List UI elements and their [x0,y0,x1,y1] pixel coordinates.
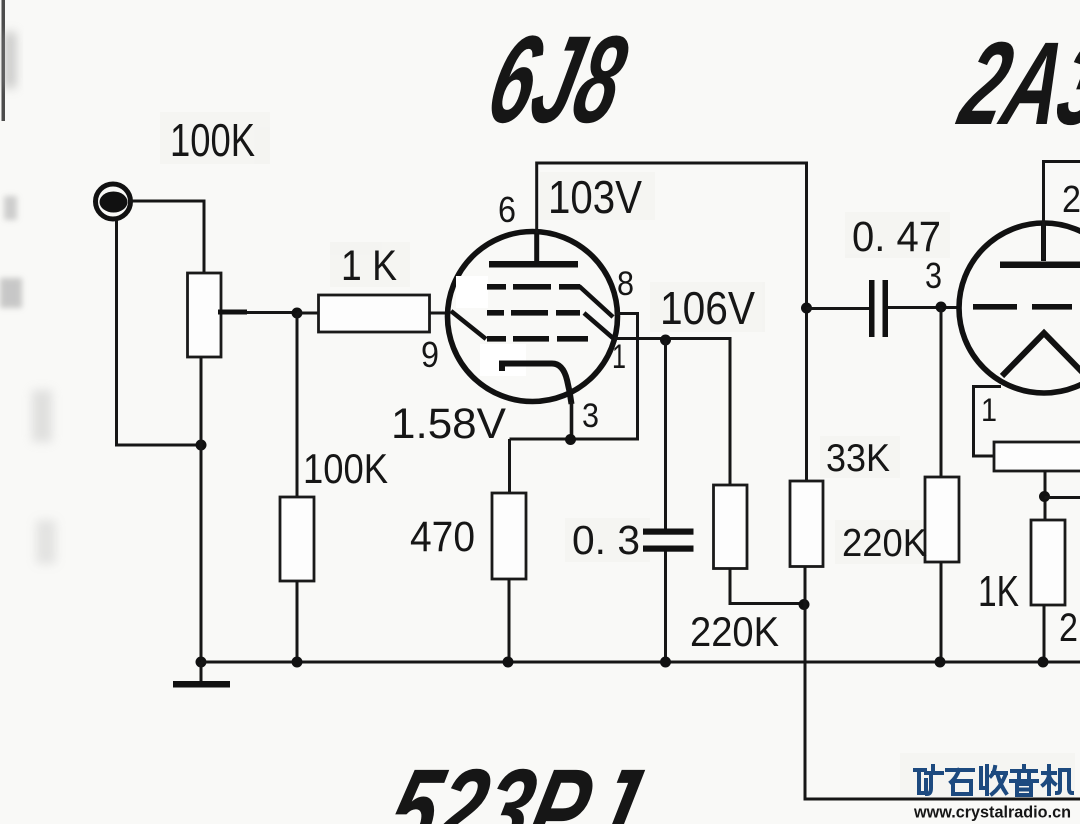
svg-text:1 K: 1 K [341,242,397,290]
junction node cathode [565,434,576,445]
label 100K (volume pot) [170,114,255,166]
svg-text:220K: 220K [690,608,779,655]
input jack J1 [96,184,131,219]
scan noise patches [160,112,1075,798]
pin label 8 [617,265,634,303]
resistor R4 220K [714,485,805,604]
label 2 (right edge) [1059,606,1078,650]
junction node pin1 / C1 [660,335,671,346]
label 220K (R6) [842,522,927,565]
svg-text:2: 2 [1062,179,1080,221]
svg-text:1: 1 [612,338,626,376]
junction node R2 ground [292,657,303,668]
scan smudge left middle [4,196,17,220]
pin label 3 [582,397,599,435]
svg-text:2: 2 [1059,606,1078,650]
石 [947,770,973,782]
pin label 9 [421,334,439,375]
wire pin 8 to cathode node [510,314,638,440]
resistor R7 1K cathode [1031,520,1065,662]
svg-text:6: 6 [498,189,516,230]
pin label 1 [612,338,626,376]
svg-text:470: 470 [410,513,475,561]
hum balance pot RP2 [994,442,1080,471]
6J8 pin 1 internal lead [584,313,614,339]
resistor R1 1K [297,295,450,332]
6J8 grid row 3 [487,336,588,342]
junction node 2A3 grid [936,302,947,313]
svg-text:100K: 100K [303,445,388,492]
junction node wiper / 1K / 100K grid leak [292,308,303,319]
6J8 grid row 1 [487,284,580,290]
svg-text:1K: 1K [978,567,1019,616]
收 [981,766,987,794]
svg-text:9: 9 [421,334,439,375]
svg-text:8: 8 [617,265,634,303]
junction node ground bus left [196,657,207,668]
label 1 K [341,242,397,290]
svg-text:0. 3: 0. 3 [572,517,640,563]
svg-text:0. 47: 0. 47 [852,213,941,261]
whiteout patch inside tube [456,276,526,376]
tube designator 2A3 [948,19,1080,150]
wire pin 1 plate of output section to coupling network [614,339,730,486]
wire J1 to volume pot top [129,201,204,273]
watermark url www.crystalradio.cn [913,803,1071,822]
scan smudge top-left [4,32,16,88]
wire J1 sleeve to pot bottom [117,220,199,445]
pin label 6 [498,189,516,230]
机 [1043,766,1055,794]
watermark logo 矿石收音机 [915,766,1072,795]
ground symbol [173,662,230,688]
6J8 cathode [502,364,572,405]
resistor R6 220K grid resistor [925,307,959,662]
junction node RP2 bottom [1039,491,1050,502]
scan edge artifact left border [2,0,6,121]
label 103V anode voltage [548,171,642,223]
label 470 [410,513,475,561]
label 220K (R4) [690,608,779,655]
potentiometer RP1 100K [188,273,298,357]
wire 2A3 anode to output transformer [1044,162,1080,260]
6J8 pin 8 internal lead [579,286,613,317]
wire cathode node to right [1045,496,1080,499]
2A3 grid dashes [973,304,1072,310]
label 33K [826,437,890,480]
label 1K (R7) [978,567,1019,616]
tube V2 2A3 envelope [959,223,1080,393]
ground bus wire [201,661,1080,664]
svg-text:3: 3 [925,255,942,296]
scan smudge faint2 [36,520,56,564]
6J8 grid row 2 [487,310,580,316]
pin label 1 (2A3 filament) [981,392,997,428]
junction node R4 / 33K [799,599,810,610]
svg-text:33K: 33K [826,437,890,480]
capacitor C1 0.3 [643,340,694,662]
2A3 anode [1000,224,1080,268]
label 100K (grid leak) [303,445,388,492]
svg-text:103V: 103V [548,171,642,223]
svg-text:3: 3 [582,397,599,435]
svg-text:1.58V: 1.58V [391,400,506,448]
矿 [915,766,942,794]
resistor R5 33K [790,481,1080,799]
schematic title 523PJ [376,745,652,824]
junction node R6 ground [935,657,946,668]
svg-text:6J8: 6J8 [476,10,639,149]
svg-text:100K: 100K [170,114,255,166]
svg-text:523PJ: 523PJ [376,745,652,824]
svg-text:106V: 106V [660,282,755,334]
2A3 filament [1002,333,1080,376]
resistor R2 100K grid leak [280,313,314,662]
svg-text:1: 1 [981,392,997,428]
wire 2A3 filament pin 1 [974,387,1002,457]
tube V1 6J8 envelope [448,232,618,402]
resistor R3 470 cathode bias [492,439,526,662]
wire RP2 to cathode resistor [1044,471,1047,520]
scan smudge left lower [0,278,22,308]
svg-text:220K: 220K [842,522,927,565]
junction node B+ / C2 [801,303,812,314]
wire pot bottom to ground bus [200,357,203,664]
svg-text:www.crystalradio.cn: www.crystalradio.cn [913,803,1071,822]
pin label 3 (2A3 grid) [925,255,942,296]
音 [1011,766,1037,781]
junction node pot bottom [196,440,207,451]
junction node R3 ground [503,657,514,668]
tube designator 6J8 [476,10,639,149]
pin label 2 (2A3 anode) [1062,179,1080,221]
label 1.58V cathode voltage [391,400,506,448]
junction node R7 ground [1038,657,1049,668]
label 0.47 [852,213,941,261]
6J8 anode [489,233,578,268]
label 0.3 [572,517,640,563]
6J8 cathode lead [570,402,574,439]
svg-text:2A3: 2A3 [948,19,1080,150]
scan smudge faint [32,390,52,442]
6J8 pin 9 internal lead [451,311,486,339]
wire 6J8 anode to B+ node [537,163,807,481]
label 106V [660,282,755,334]
junction node C1 ground [660,657,671,668]
capacitor C2 0.47 coupling [807,280,959,337]
